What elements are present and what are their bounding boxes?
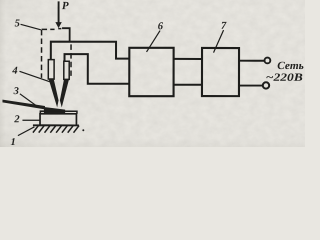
wire box7 to bottom terminal: [239, 85, 262, 87]
wire net2: right electrode to box6 lower input: [64, 54, 129, 84]
specimen bar 3: [2, 100, 45, 110]
dashed box right edge: [70, 44, 72, 75]
svg-text:3: 3: [13, 86, 19, 97]
leader line 7: [214, 30, 224, 53]
leader line 6: [147, 30, 161, 52]
top plate of block: [40, 111, 77, 114]
wire box7 to top terminal: [239, 60, 264, 62]
paper background: [0, 0, 305, 147]
svg-text:4: 4: [11, 66, 17, 77]
hatch strokes: [33, 126, 79, 133]
wire box6 to box7 bottom: [174, 84, 202, 86]
leader line 2: [22, 119, 39, 121]
svg-text:7: 7: [221, 21, 227, 32]
electrode holder right: [64, 61, 69, 79]
base plate 1 with hatching: [33, 125, 84, 132]
leader line 1: [18, 127, 35, 136]
dashed box 5 solid corner: [62, 28, 70, 41]
dashed box top edge: [42, 28, 55, 30]
box 6 amplifier: [129, 48, 173, 96]
base plate surface line: [33, 124, 79, 126]
top terminal: [265, 58, 271, 64]
box 7 power unit: [202, 48, 239, 96]
hatch end dot: [82, 129, 84, 131]
electrode tip left (4): [49, 79, 59, 108]
svg-text:5: 5: [15, 18, 20, 29]
leader line 5: [21, 24, 41, 30]
svg-text:6: 6: [158, 21, 164, 32]
svg-text:~220В: ~220В: [266, 72, 303, 84]
welding head dashed box 5: [41, 29, 71, 78]
svg-text:P: P: [62, 0, 69, 12]
electrode holder left: [48, 60, 54, 79]
leader line 3: [20, 94, 37, 106]
dashed box top edge right dash: [58, 28, 61, 30]
svg-text:1: 1: [10, 137, 15, 147]
svg-text:2: 2: [13, 114, 20, 125]
leader line 4: [19, 71, 50, 82]
bottom terminal: [263, 82, 269, 88]
weld strip on block: [44, 107, 65, 113]
electrode tip right (4): [60, 79, 69, 107]
svg-text:Сеть: Сеть: [277, 60, 304, 72]
wire net1: left electrode to box6 upper input: [51, 42, 130, 60]
dashed box left edge: [40, 30, 42, 78]
wire box6 to box7 top: [174, 58, 202, 60]
support block 2: [40, 114, 76, 126]
force arrow P: [55, 1, 61, 28]
